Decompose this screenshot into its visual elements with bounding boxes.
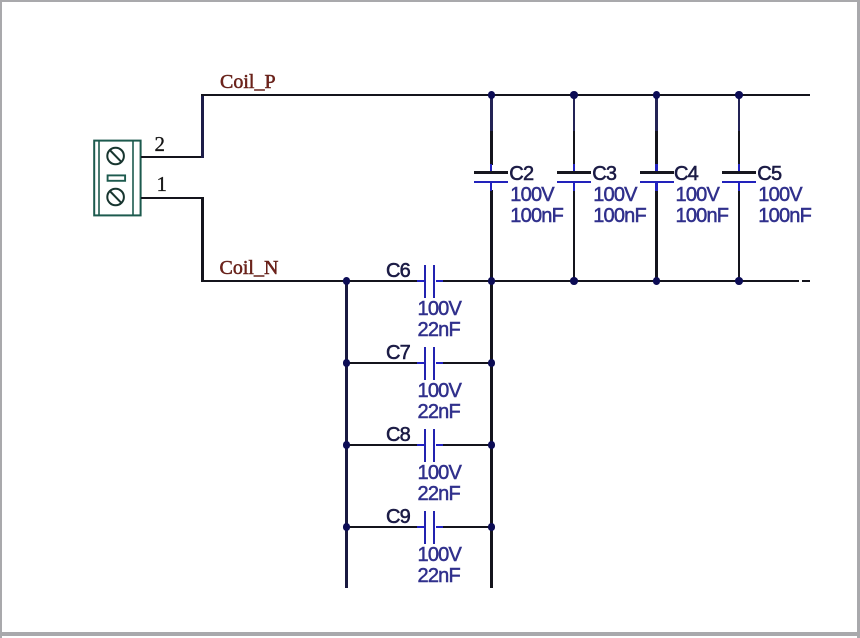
wire C7 row left bbox=[346, 362, 417, 365]
wire right rail below C2 bbox=[490, 190, 493, 588]
capacitor C6 bbox=[0, 0, 860, 1]
net label Coil_N bbox=[220, 258, 279, 278]
wire C8 row left bbox=[346, 444, 417, 447]
junction dot Coil_N at C5 bbox=[735, 277, 743, 285]
net label Coil_P bbox=[220, 72, 276, 92]
capacitor C5 designator label bbox=[757, 164, 781, 185]
junction dot Coil_P at C3 bbox=[570, 91, 578, 99]
pin 2 number label bbox=[155, 134, 166, 155]
junction dot Coil_P at C4 bbox=[653, 91, 661, 99]
junction dot Coil_P at C5 bbox=[735, 91, 743, 99]
junction dot C8 left bbox=[343, 441, 351, 449]
capacitor C2 value labels bbox=[510, 185, 563, 227]
capacitor C3 designator label bbox=[592, 164, 616, 185]
wire left rail (C6-C9 left bus) bbox=[345, 281, 348, 588]
capacitor C9 bbox=[0, 0, 860, 1]
junction dot Coil_N at left rail bbox=[343, 277, 351, 285]
wire C9 row right bbox=[443, 526, 491, 529]
wire C8 row right bbox=[443, 444, 491, 447]
junction dot Coil_N at right rail bbox=[488, 277, 496, 285]
wire Coil_N rail right segment bbox=[443, 280, 799, 283]
wire C5 vertical upper bbox=[738, 94, 741, 132]
wire C9 row left bbox=[346, 526, 417, 529]
wire C3 vertical lower bbox=[573, 190, 576, 281]
capacitor C4 bbox=[0, 0, 860, 1]
capacitor C7 bbox=[0, 0, 860, 1]
connector J1 terminal block bbox=[88, 134, 148, 224]
capacitor C8 bbox=[0, 0, 860, 1]
capacitor C9 value labels bbox=[418, 545, 462, 587]
capacitor C8 value labels bbox=[418, 463, 462, 505]
wire Coil_N rail left segment bbox=[201, 280, 417, 283]
capacitor C8 designator label bbox=[386, 425, 410, 446]
capacitor C4 value labels bbox=[676, 185, 729, 227]
junction dot C7 left bbox=[343, 359, 351, 367]
wire C7 row right bbox=[443, 362, 491, 365]
wire pin2 vertical up to Coil_P bbox=[201, 94, 204, 158]
wire C2 branch upper bbox=[490, 94, 493, 132]
capacitor C5 bbox=[0, 0, 860, 1]
wire C4 vertical upper bbox=[655, 94, 658, 132]
capacitor C4 designator label bbox=[674, 164, 698, 185]
junction dot C9 left bbox=[343, 523, 351, 531]
junction dot Coil_P at C2 bbox=[488, 91, 496, 99]
wire pin1 horizontal bbox=[141, 197, 204, 200]
capacitor C7 designator label bbox=[386, 343, 410, 364]
capacitor C3 value labels bbox=[593, 185, 646, 227]
wire Coil_P rail bbox=[201, 94, 810, 97]
capacitor C7 value labels bbox=[418, 381, 462, 423]
capacitor C9 designator label bbox=[386, 507, 410, 528]
capacitor C3 bbox=[0, 0, 860, 1]
wire pin2 horizontal bbox=[141, 156, 204, 159]
capacitor C2 designator label bbox=[509, 164, 533, 185]
pin 1 number label bbox=[157, 174, 168, 195]
capacitor C2 bbox=[0, 0, 860, 1]
junction dot Coil_N at C3 bbox=[570, 277, 578, 285]
wire pin1 vertical down to Coil_N bbox=[201, 197, 204, 283]
wire C4 vertical lower bbox=[655, 190, 658, 281]
junction dot C7 right bbox=[488, 359, 496, 367]
junction dot C8 right bbox=[488, 441, 496, 449]
junction dot C9 right bbox=[488, 523, 496, 531]
wire C3 vertical upper bbox=[573, 94, 576, 132]
capacitor C6 value labels bbox=[418, 299, 462, 341]
wire Coil_N rail end dash bbox=[802, 280, 811, 283]
capacitor C5 value labels bbox=[758, 185, 811, 227]
wire C5 vertical lower bbox=[738, 190, 741, 281]
junction dot Coil_N at C4 bbox=[653, 277, 661, 285]
capacitor C6 designator label bbox=[386, 261, 410, 282]
